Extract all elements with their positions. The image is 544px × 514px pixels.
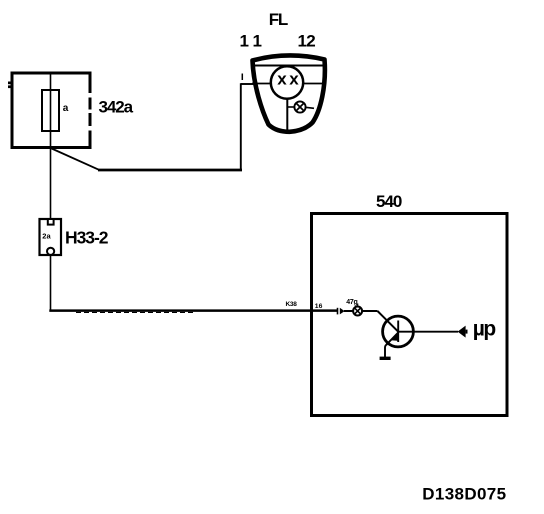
svg-text:1 1: 1 1 bbox=[240, 32, 262, 51]
svg-text:H33-2: H33-2 bbox=[65, 228, 109, 248]
svg-text:a: a bbox=[63, 103, 69, 114]
svg-text:x: x bbox=[289, 70, 299, 89]
svg-text:µp: µp bbox=[473, 318, 496, 341]
svg-text:D138D075: D138D075 bbox=[422, 484, 506, 503]
svg-text:2a: 2a bbox=[42, 231, 51, 240]
svg-text:342a: 342a bbox=[99, 97, 134, 116]
svg-text:16: 16 bbox=[315, 303, 323, 310]
svg-text:FL: FL bbox=[269, 10, 288, 29]
svg-text:47g: 47g bbox=[346, 299, 357, 306]
svg-text:12: 12 bbox=[298, 32, 316, 51]
svg-text:K38: K38 bbox=[286, 301, 298, 308]
svg-text:540: 540 bbox=[376, 192, 402, 211]
svg-text:x: x bbox=[277, 70, 287, 89]
